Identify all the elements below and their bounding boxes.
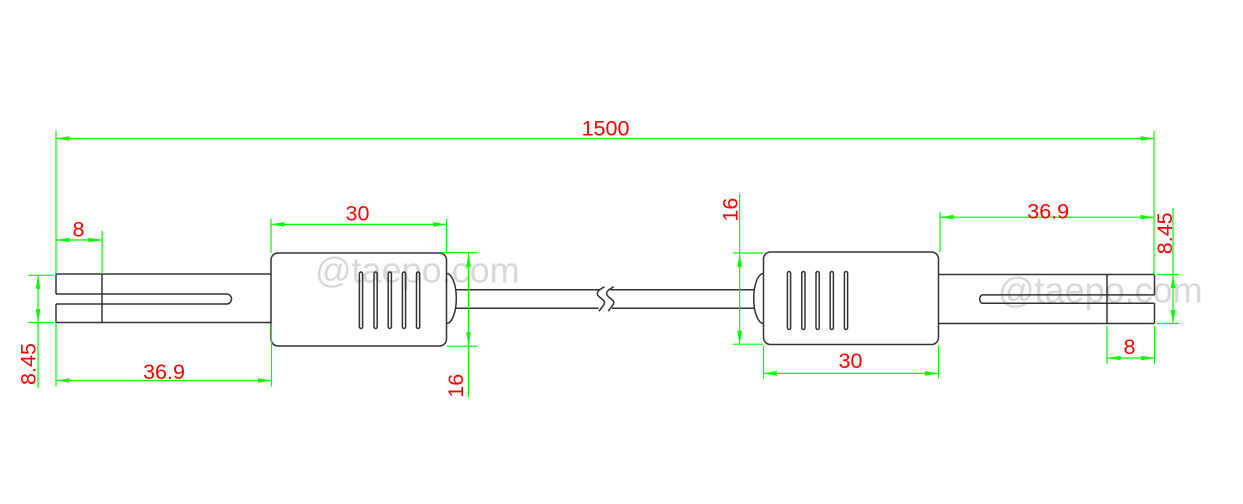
svg-text:8: 8 (73, 218, 85, 242)
svg-text:36.9: 36.9 (143, 360, 185, 384)
svg-text:16: 16 (719, 198, 743, 222)
svg-text:8.45: 8.45 (17, 343, 41, 385)
svg-text:30: 30 (346, 202, 370, 226)
svg-text:@taepo.com: @taepo.com (315, 250, 520, 291)
svg-text:@taepo.com: @taepo.com (998, 270, 1203, 311)
svg-text:16: 16 (444, 374, 468, 398)
svg-text:1500: 1500 (582, 117, 630, 141)
svg-text:36.9: 36.9 (1027, 200, 1069, 224)
svg-text:30: 30 (839, 349, 863, 373)
svg-text:8.45: 8.45 (1153, 212, 1177, 254)
svg-text:8: 8 (1124, 335, 1136, 359)
